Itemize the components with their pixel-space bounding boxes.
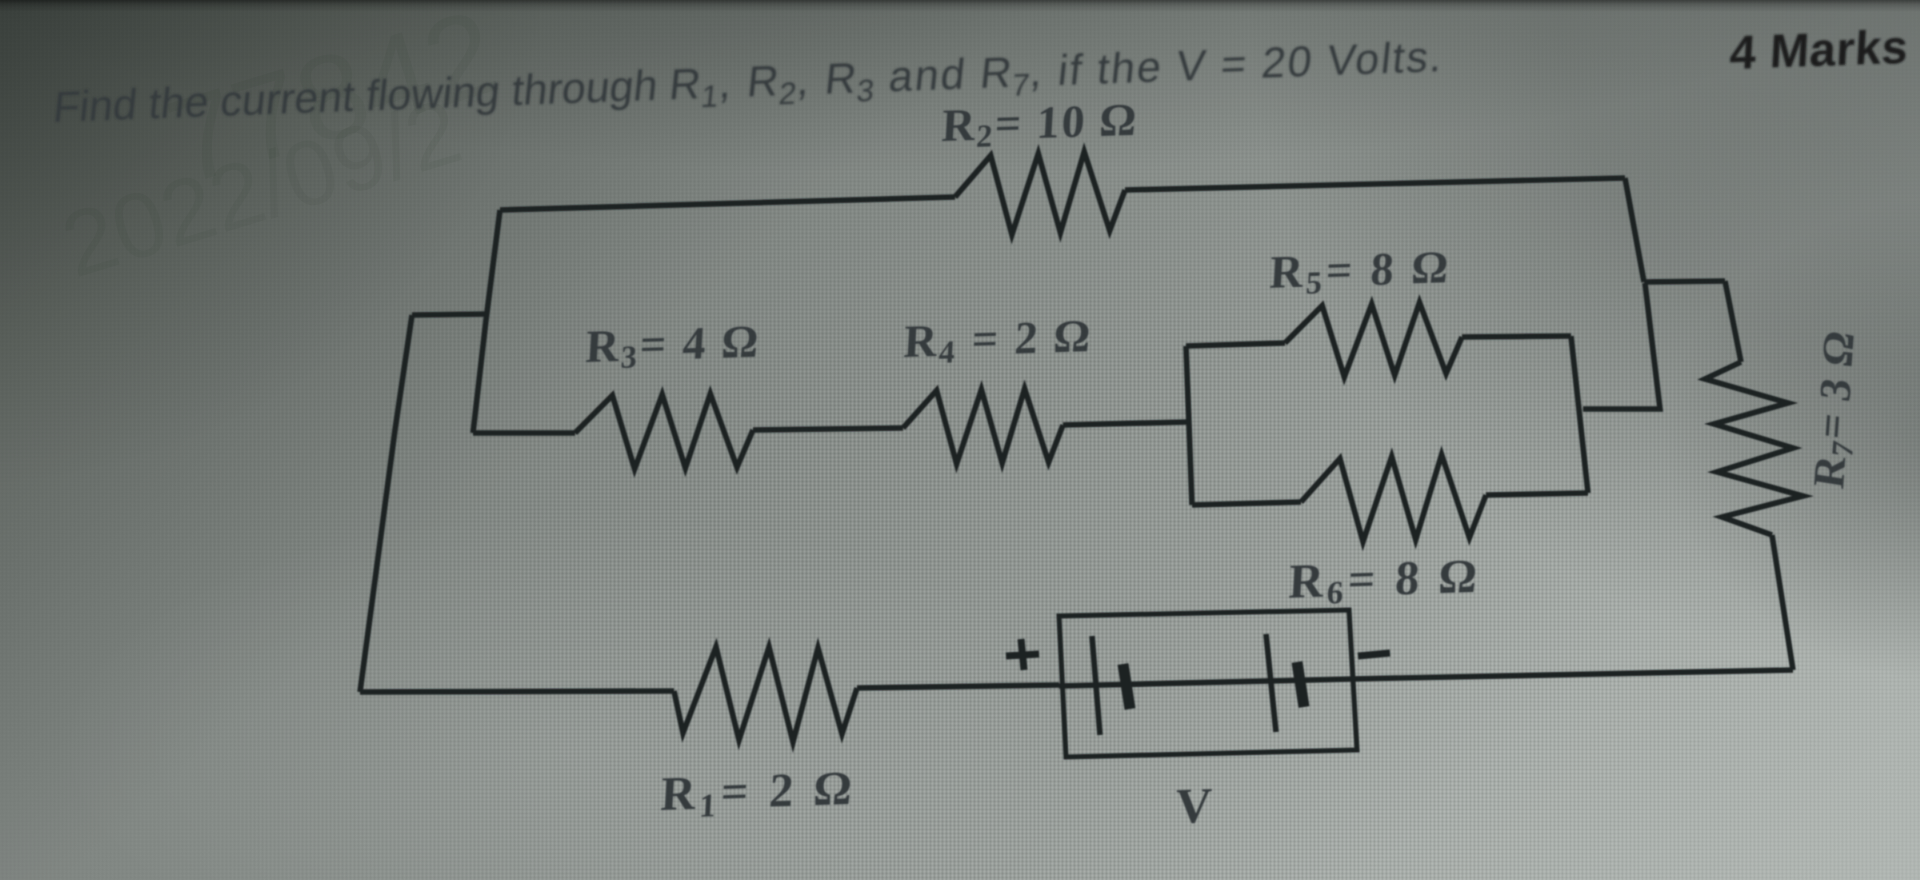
wire R5 left lead	[1186, 343, 1285, 346]
svg-text:R2= 10 Ω: R2= 10 Ω	[940, 94, 1139, 155]
wire top-right drop	[1625, 178, 1644, 282]
battery cell plate long 2	[1266, 634, 1276, 732]
plus sign	[1006, 654, 1039, 656]
wire outer left edge	[360, 315, 412, 692]
wire top right segment	[1125, 178, 1625, 190]
wire jog to R7 branch	[1644, 281, 1725, 282]
wire stub left node	[412, 314, 488, 315]
resistor R3	[575, 394, 753, 469]
resistor R7	[1705, 362, 1803, 535]
resistor R4	[903, 389, 1063, 464]
box left edge (R5/R6 node)	[1186, 346, 1192, 505]
svg-text:R3= 4 Ω: R3= 4 Ω	[584, 316, 761, 377]
battery box V	[1059, 610, 1357, 757]
wire bottom right	[1351, 670, 1793, 679]
resistor R5	[1285, 302, 1462, 377]
battery cell plate long 1	[1092, 636, 1100, 735]
resistor R2	[955, 152, 1125, 235]
wire R6 right lead	[1486, 493, 1588, 495]
wire bottom left	[360, 691, 674, 692]
svg-text:R1= 2 Ω: R1= 2 Ω	[659, 762, 857, 826]
wire node to box (right mid)	[1583, 283, 1660, 409]
resistor R6	[1301, 455, 1486, 542]
wire R1 to battery	[857, 685, 1059, 688]
wire R4 to box	[1063, 422, 1188, 425]
battery cell plate short 1	[1123, 664, 1130, 709]
wire battery inner	[1059, 679, 1351, 686]
svg-text:V: V	[1175, 777, 1213, 834]
resistor R1	[674, 647, 857, 742]
minus sign	[1358, 653, 1390, 656]
svg-text:R4 = 2 Ω: R4 = 2 Ω	[902, 310, 1093, 371]
wire R5 right lead	[1462, 336, 1571, 337]
wire between R3 and R4	[753, 428, 903, 430]
wire top-loop left riser	[473, 210, 500, 433]
svg-text:4 Marks: 4 Marks	[1728, 20, 1909, 79]
svg-text:R6= 8 Ω: R6= 8 Ω	[1287, 550, 1481, 613]
wire middle row left	[473, 430, 575, 436]
battery cell plate short 2	[1297, 662, 1304, 707]
svg-text:R7= 3 Ω: R7= 3 Ω	[1804, 327, 1867, 492]
wire R7 bottom lead	[1772, 535, 1793, 670]
wire R6 left lead	[1192, 502, 1301, 505]
wire R7 top lead	[1725, 281, 1741, 362]
svg-text:R5= 8 Ω: R5= 8 Ω	[1268, 241, 1452, 302]
box right edge (R5/R6 node)	[1571, 336, 1588, 493]
wire top left segment	[500, 197, 955, 210]
